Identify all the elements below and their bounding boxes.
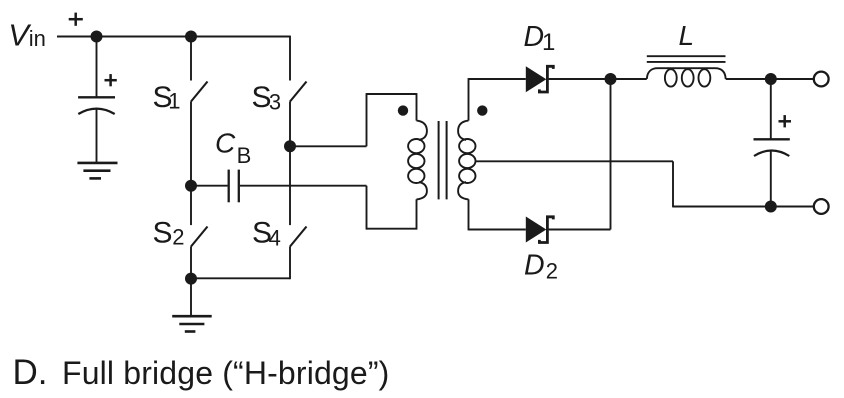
svg-text:4: 4 <box>269 225 281 250</box>
svg-text:1: 1 <box>168 88 180 113</box>
svg-text:D: D <box>524 250 545 282</box>
svg-text:B: B <box>237 143 252 168</box>
svg-text:2: 2 <box>172 225 184 250</box>
svg-text:L: L <box>679 20 695 51</box>
svg-text:D.: D. <box>13 353 48 392</box>
svg-text:C: C <box>215 128 236 159</box>
svg-text:in: in <box>29 26 46 51</box>
svg-text:D: D <box>524 21 545 53</box>
svg-text:1: 1 <box>542 29 555 56</box>
svg-text:2: 2 <box>546 258 558 283</box>
svg-text:S: S <box>153 217 173 250</box>
svg-text:3: 3 <box>269 90 281 115</box>
svg-text:Full bridge (“H-bridge”): Full bridge (“H-bridge”) <box>62 355 389 391</box>
